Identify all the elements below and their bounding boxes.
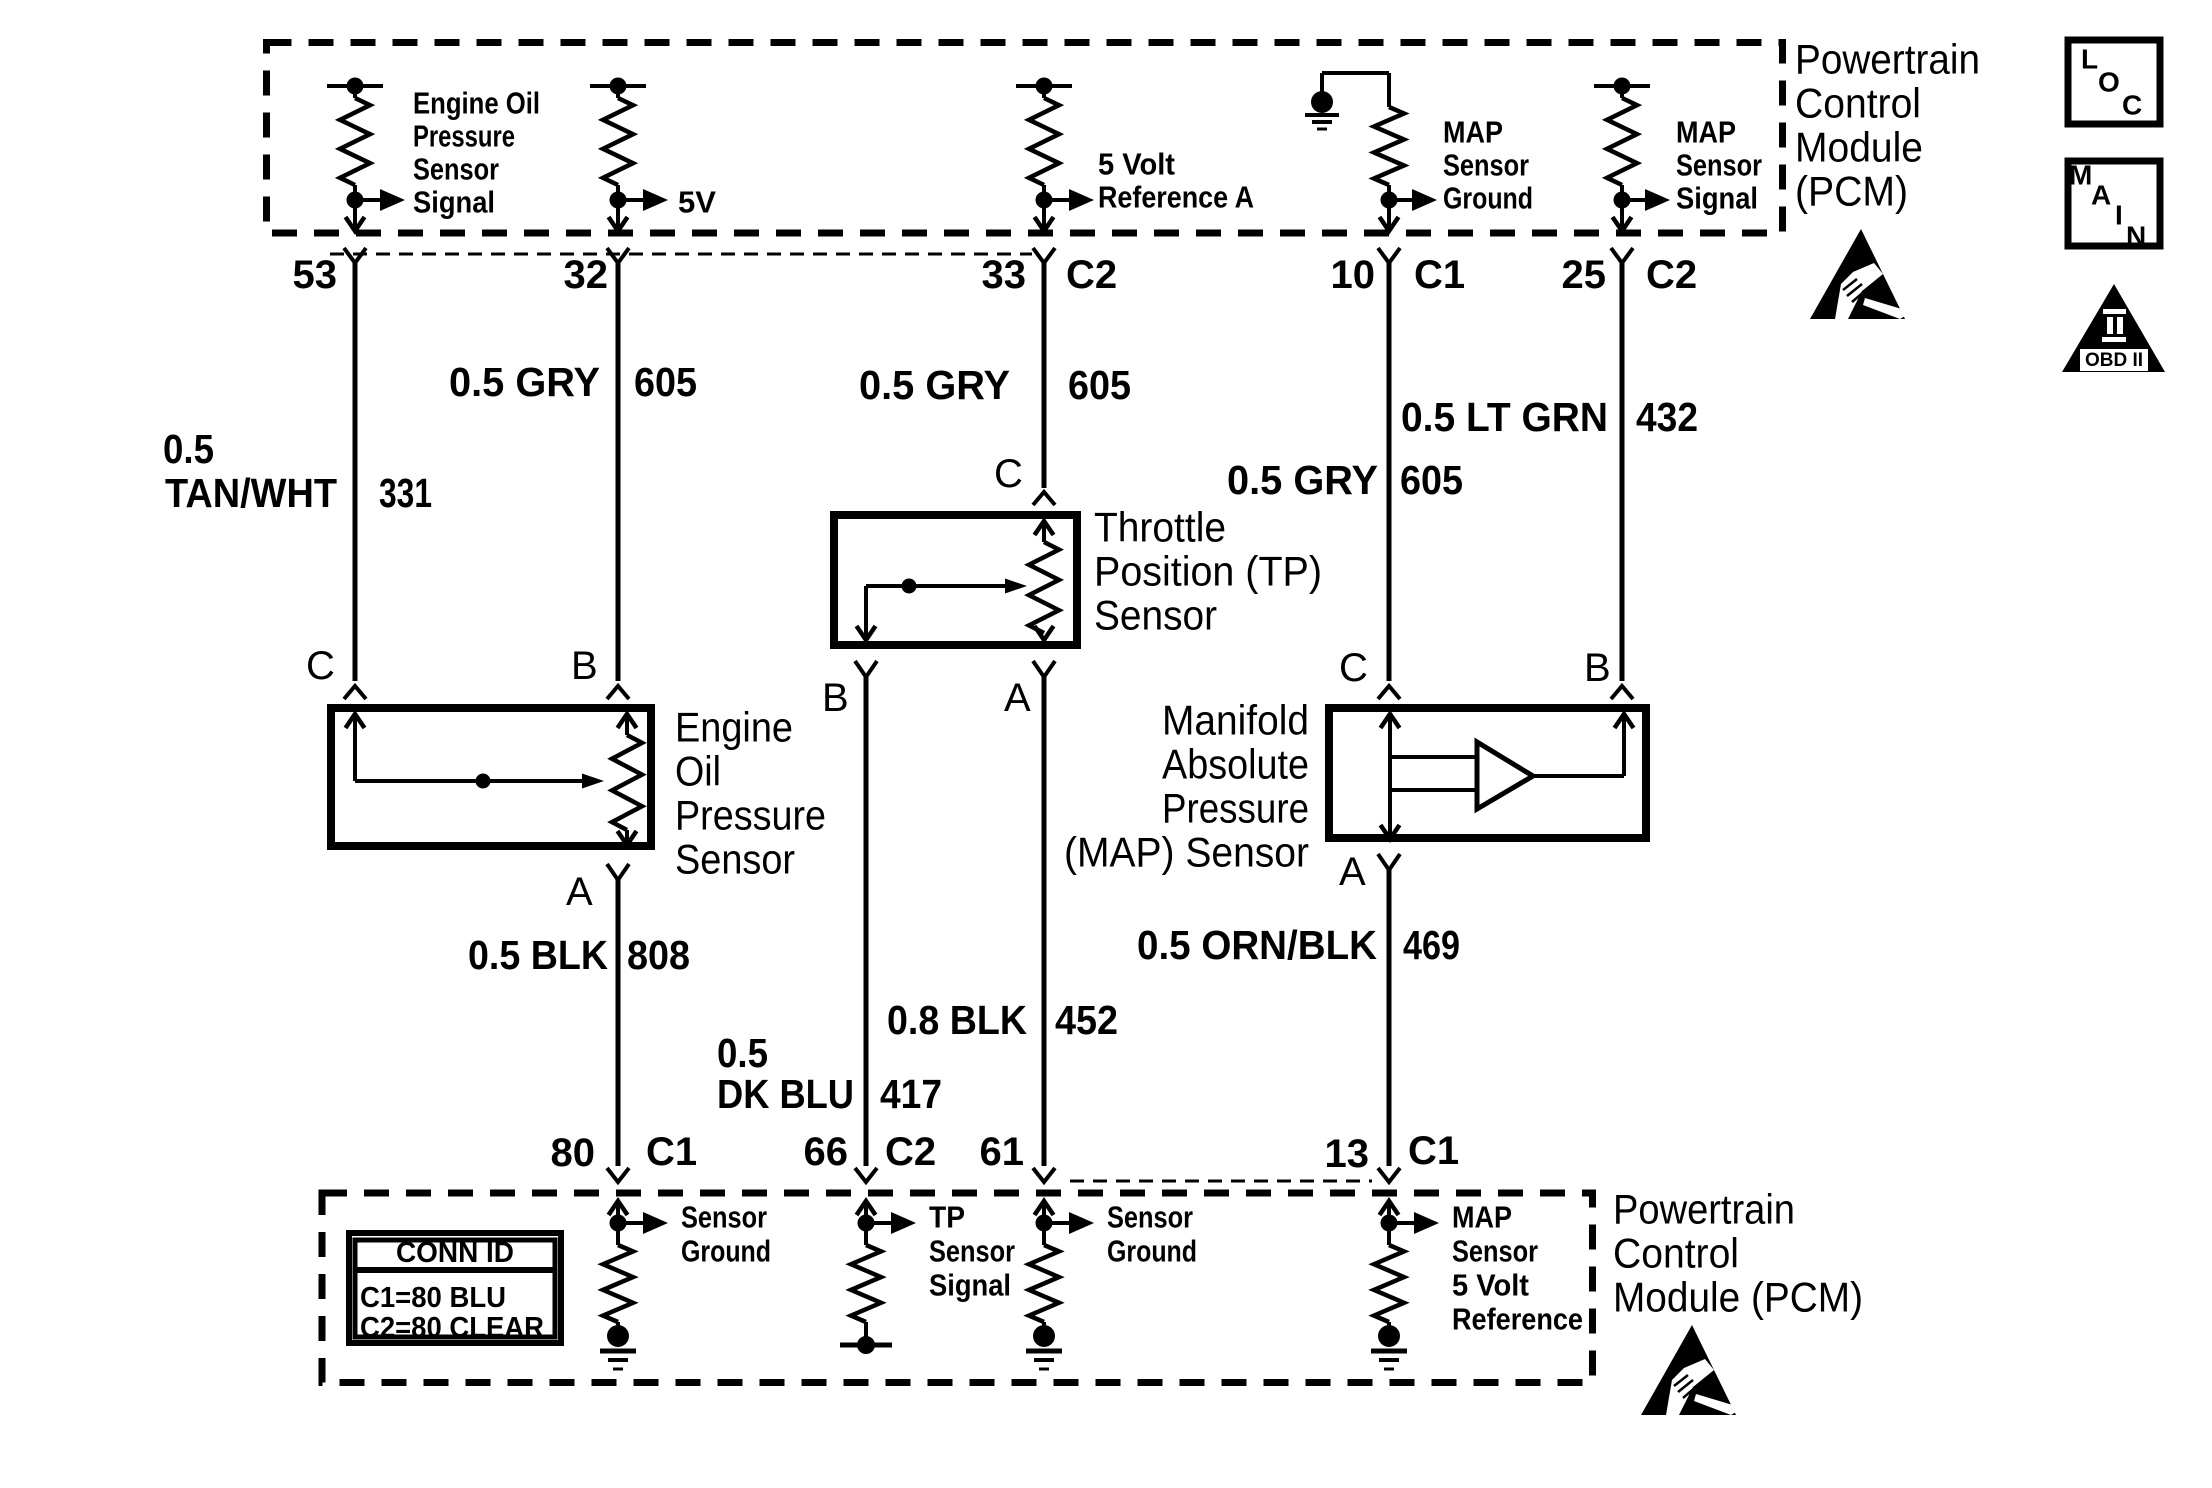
svg-text:C1: C1: [1414, 253, 1465, 297]
arrow: EOP wiper: [582, 774, 604, 789]
svg-text:0.5: 0.5: [717, 1030, 768, 1076]
svg-text:808: 808: [627, 932, 690, 978]
svg-text:M: M: [2069, 159, 2092, 190]
svg-text:Signal: Signal: [929, 1268, 1011, 1303]
wire: pin entry arrow: [1380, 1201, 1399, 1223]
op-amp: MAP amplifier: [1477, 742, 1533, 809]
connector pin 32: [607, 248, 629, 263]
wire: circuit 432 (pin 25 to MAP sensor B): [1620, 263, 1625, 681]
connector: MAP sensor pin C: [1378, 686, 1400, 699]
resistor: PCM MAP sensor ground resistor: [1374, 73, 1404, 200]
label: pin 80: [551, 1131, 596, 1175]
svg-text:B: B: [1584, 646, 1611, 690]
svg-text:Manifold: Manifold: [1162, 697, 1309, 744]
svg-text:O: O: [2098, 66, 2120, 97]
label: connector C1 (pin 13): [1408, 1129, 1459, 1173]
svg-text:MAP: MAP: [1443, 115, 1503, 150]
throttle position sensor box: [834, 515, 1077, 645]
wire: pin 33 exit arrow: [1035, 200, 1054, 231]
svg-text:80: 80: [551, 1131, 596, 1175]
svg-text:61: 61: [980, 1130, 1025, 1174]
label: pin 66: [804, 1130, 849, 1174]
resistor: EOP potentiometer: [612, 714, 642, 845]
svg-text:Ground: Ground: [681, 1234, 771, 1269]
svg-text:C: C: [2122, 89, 2142, 120]
signal arrow: MAP Sensor Ground: [1389, 189, 1437, 211]
ESD warning symbol (top): [1810, 229, 1905, 319]
svg-text:OBD II: OBD II: [2085, 350, 2143, 371]
node: junction pin 33: [1036, 192, 1053, 209]
label: circuit 417: [880, 1071, 942, 1117]
label: EOP pin B: [571, 644, 598, 688]
label: circuit 452: [1055, 997, 1118, 1043]
wire: pin 32 exit arrow: [609, 200, 628, 231]
svg-text:Reference: Reference: [1452, 1302, 1583, 1337]
svg-text:32: 32: [564, 253, 609, 297]
label: pin 53: [293, 253, 338, 297]
LOC inset symbol: [2068, 40, 2160, 124]
svg-text:MAP: MAP: [1676, 115, 1736, 150]
connector pin 10: [1378, 248, 1400, 263]
engine oil pressure sensor box: [331, 708, 651, 846]
connector: EOP sensor pin B: [607, 686, 629, 699]
svg-text:TP: TP: [929, 1200, 965, 1235]
label: MAP Sensor 5 Volt Reference: [1452, 1200, 1583, 1337]
connector: TP sensor pin B: [855, 661, 877, 677]
label: MAP pin A: [1339, 850, 1366, 894]
svg-text:Sensor: Sensor: [929, 1234, 1015, 1269]
svg-text:C2: C2: [1646, 253, 1697, 297]
svg-text:MAP: MAP: [1452, 1200, 1512, 1235]
label: Sensor Ground: [1107, 1200, 1197, 1269]
svg-text:469: 469: [1403, 922, 1460, 968]
svg-text:0.5 GRY: 0.5 GRY: [859, 362, 1010, 408]
svg-text:0.5 BLK: 0.5 BLK: [468, 932, 608, 978]
connector: EOP sensor pin A: [607, 864, 629, 880]
svg-text:605: 605: [634, 359, 697, 405]
signal arrow: [1044, 1212, 1094, 1234]
wire: pin 53 exit arrow: [346, 200, 365, 231]
svg-text:Ground: Ground: [1107, 1234, 1197, 1269]
node: junction: [610, 1215, 627, 1232]
svg-text:Powertrain: Powertrain: [1795, 36, 1980, 83]
resistor: PCM pull-up (5 volt reference A): [1029, 86, 1059, 200]
svg-text:331: 331: [379, 470, 432, 516]
svg-text:Module (PCM): Module (PCM): [1613, 1274, 1863, 1321]
svg-text:Sensor: Sensor: [1676, 148, 1762, 183]
label: 0.5 ORN/BLK: [1137, 922, 1377, 968]
svg-text:L: L: [2081, 43, 2098, 74]
label: circuit 432: [1636, 394, 1698, 440]
resistor: PCM internal: [1029, 1223, 1059, 1322]
PCM bottom title: Powertrain Control Module (PCM): [1613, 1186, 1863, 1321]
svg-text:A: A: [1339, 850, 1366, 894]
label: 0.5 GRY (pin 10): [1227, 457, 1378, 503]
svg-text:C1: C1: [646, 1130, 697, 1174]
svg-text:C2: C2: [885, 1130, 936, 1174]
label: circuit 469: [1403, 922, 1460, 968]
signal arrow: 5V: [618, 189, 668, 211]
label: TP pin A: [1004, 676, 1031, 720]
svg-text:432: 432: [1636, 394, 1698, 440]
connector: MAP sensor pin B: [1611, 686, 1633, 699]
node: MAP sensor signal supply bar: [1594, 78, 1650, 95]
OBD II symbol: [2062, 284, 2165, 372]
connector: TP sensor pin C: [1033, 492, 1055, 505]
svg-text:Reference A: Reference A: [1098, 180, 1254, 215]
svg-text:66: 66: [804, 1130, 849, 1174]
signal arrow: [866, 1212, 916, 1234]
svg-text:0.8 BLK: 0.8 BLK: [887, 997, 1027, 1043]
svg-text:Pressure: Pressure: [675, 792, 826, 839]
svg-text:A: A: [2091, 179, 2111, 210]
label: EOP pin C: [306, 644, 335, 688]
svg-text:0.5 ORN/BLK: 0.5 ORN/BLK: [1137, 922, 1377, 968]
svg-text:C1=80 BLU: C1=80 BLU: [360, 1282, 506, 1314]
svg-text:Signal: Signal: [1676, 181, 1758, 216]
svg-text:Powertrain: Powertrain: [1613, 1186, 1795, 1233]
label: pin 10: [1331, 253, 1376, 297]
svg-text:13: 13: [1325, 1132, 1370, 1176]
svg-text:C: C: [306, 644, 335, 688]
resistor: TP potentiometer: [1029, 521, 1059, 640]
label: connector C1: [1414, 253, 1465, 297]
label: pin 32: [564, 253, 609, 297]
node: TP signal rail: [840, 1322, 892, 1354]
svg-text:Sensor: Sensor: [681, 1200, 767, 1235]
svg-text:0.5 GRY: 0.5 GRY: [449, 359, 600, 405]
svg-text:Oil: Oil: [675, 748, 721, 795]
label: circuit 605 (pin 33): [1068, 362, 1131, 408]
wire: circuit 605 (pin 33 to TP sensor C): [1042, 263, 1047, 488]
wire: pin 25 exit arrow: [1613, 200, 1632, 231]
svg-text:53: 53: [293, 253, 338, 297]
label: Engine Oil Pressure Sensor Signal: [413, 86, 540, 220]
svg-text:N: N: [2126, 220, 2146, 251]
resistor: PCM internal: [851, 1223, 881, 1322]
label: 0.5 GRY (pin 32): [449, 359, 600, 405]
wire: circuit 808 (EOP A to pin 80): [616, 880, 621, 1166]
svg-text:0.5: 0.5: [163, 426, 214, 472]
svg-text:Control: Control: [1795, 80, 1921, 127]
ground: PCM internal ground (MAP sensor ground): [1305, 73, 1389, 129]
svg-text:605: 605: [1400, 457, 1463, 503]
svg-text:C: C: [1339, 646, 1368, 690]
connector pin 13: [1378, 1168, 1400, 1182]
label: pin 25: [1562, 253, 1607, 297]
svg-text:605: 605: [1068, 362, 1131, 408]
connector pin 53: [344, 248, 366, 263]
resistor: PCM internal: [1374, 1223, 1404, 1322]
svg-text:5 Volt: 5 Volt: [1452, 1268, 1529, 1303]
label: 0.5 LT GRN: [1401, 394, 1608, 440]
PCM top title: Powertrain Control Module (PCM): [1795, 36, 1980, 215]
svg-text:Ground: Ground: [1443, 181, 1533, 216]
node: junction pin 10: [1381, 192, 1398, 209]
label: 5 Volt Reference A: [1098, 147, 1254, 215]
node: junction pin 53: [347, 192, 364, 209]
resistor: PCM pull-up (MAP sensor signal): [1607, 86, 1637, 200]
label: connector C2 (pin 25): [1646, 253, 1697, 297]
wire: pin 10 exit arrow: [1380, 200, 1399, 231]
connector pin 80: [607, 1168, 629, 1182]
svg-text:B: B: [571, 644, 598, 688]
svg-text:Absolute: Absolute: [1162, 741, 1309, 788]
label: connector C1 (pin 80): [646, 1130, 697, 1174]
wire: circuit 605 (pin 32 to EOP sensor B): [616, 263, 621, 681]
connector: EOP sensor pin C: [344, 686, 366, 699]
svg-text:Pressure: Pressure: [413, 119, 515, 154]
connector C1 dashed line (bottom): [1070, 1180, 1372, 1183]
node: junction pin 25: [1614, 192, 1631, 209]
node: junction: [1381, 1215, 1398, 1232]
MAIN inset symbol: [2068, 159, 2160, 251]
svg-text:Engine Oil: Engine Oil: [413, 86, 540, 121]
label: connector C2 (pin 66): [885, 1130, 936, 1174]
svg-text:C2: C2: [1066, 253, 1117, 297]
connector pin 33: [1033, 248, 1055, 263]
wire: MAP input leg: [1381, 714, 1478, 839]
svg-text:Control: Control: [1613, 1230, 1739, 1277]
label: MAP Sensor Ground: [1443, 115, 1533, 216]
wire: MAP output leg: [1533, 714, 1634, 776]
resistor: PCM pull-up (5V): [603, 86, 633, 200]
wire: circuit 469 (MAP A to pin 13): [1387, 870, 1392, 1166]
label: pin 33: [982, 253, 1027, 297]
signal arrow: MAP Sensor Signal: [1622, 189, 1670, 211]
label: EOP pin A: [566, 870, 593, 914]
label: 5V: [678, 185, 716, 220]
node: 5 volt reference supply bar: [1016, 78, 1072, 95]
label: 0.5 TAN/WHT: [163, 426, 337, 516]
label: TP pin C: [994, 452, 1023, 496]
svg-text:10: 10: [1331, 253, 1376, 297]
svg-text:C: C: [994, 452, 1023, 496]
svg-text:Sensor: Sensor: [1107, 1200, 1193, 1235]
PCM bottom dashed box: [322, 1193, 1593, 1383]
svg-text:C1: C1: [1408, 1129, 1459, 1173]
label: MAP pin C: [1339, 646, 1368, 690]
svg-text:Module: Module: [1795, 124, 1923, 171]
label: TP pin B: [822, 676, 849, 720]
connector: TP sensor pin A: [1033, 661, 1055, 677]
connector pin 61: [1033, 1168, 1055, 1182]
label: 0.5 GRY (pin 33): [859, 362, 1010, 408]
label: 0.8 BLK: [887, 997, 1027, 1043]
svg-text:(MAP) Sensor: (MAP) Sensor: [1064, 829, 1309, 876]
label: MAP pin B: [1584, 646, 1611, 690]
node: junction: [1036, 1215, 1053, 1232]
ground: PCM internal ground: [1026, 1322, 1062, 1369]
svg-text:Sensor: Sensor: [1452, 1234, 1538, 1269]
ground: PCM internal ground: [600, 1322, 636, 1369]
svg-text:B: B: [822, 676, 849, 720]
label: Throttle Position (TP) Sensor: [1094, 504, 1322, 639]
svg-text:33: 33: [982, 253, 1027, 297]
svg-text:A: A: [566, 870, 593, 914]
connector pin 66: [855, 1168, 877, 1182]
wire: circuit 331 (pin 53 to EOP sensor C): [353, 263, 358, 681]
resistor: PCM pull-up (engine oil pressure sensor signal): [340, 86, 370, 200]
svg-text:I: I: [2115, 199, 2123, 230]
connector: MAP sensor pin A: [1378, 854, 1400, 870]
svg-text:Engine: Engine: [675, 704, 793, 751]
svg-text:452: 452: [1055, 997, 1118, 1043]
svg-text:25: 25: [1562, 253, 1607, 297]
label: circuit 331: [379, 470, 432, 516]
ground: PCM internal ground: [1371, 1322, 1407, 1369]
svg-text:Pressure: Pressure: [1162, 785, 1309, 832]
wire: EOP wiper feed: [346, 714, 585, 781]
node: TP wiper dot: [902, 579, 917, 594]
svg-text:Throttle: Throttle: [1094, 504, 1226, 551]
connector C2 dashed line (top): [330, 253, 1032, 256]
label: TP Sensor Signal: [929, 1200, 1015, 1303]
resistor: PCM internal: [603, 1223, 633, 1322]
svg-text:0.5 LT GRN: 0.5 LT GRN: [1401, 394, 1608, 440]
label: circuit 605 (pin 10): [1400, 457, 1463, 503]
svg-text:A: A: [1004, 676, 1031, 720]
manifold absolute pressure sensor box: [1329, 708, 1646, 838]
svg-text:Sensor: Sensor: [413, 152, 499, 187]
signal arrow: [618, 1212, 668, 1234]
label: MAP Sensor Signal: [1676, 115, 1762, 216]
svg-text:Position (TP): Position (TP): [1094, 548, 1322, 595]
connector pin 25: [1611, 248, 1633, 263]
node: engine oil pressure sensor signal supply bar: [327, 78, 383, 95]
label: circuit 808: [627, 932, 690, 978]
svg-text:(PCM): (PCM): [1795, 168, 1908, 215]
svg-text:5V: 5V: [678, 185, 716, 220]
svg-text:CONN ID: CONN ID: [396, 1237, 514, 1269]
node: 5V supply bar: [590, 78, 646, 95]
svg-text:Sensor: Sensor: [1094, 592, 1217, 639]
label: Manifold Absolute Pressure (MAP) Sensor: [1064, 697, 1309, 876]
svg-text:5 Volt: 5 Volt: [1098, 147, 1175, 182]
node: junction: [858, 1215, 875, 1232]
PCM top dashed box: [267, 43, 1783, 234]
svg-text:DK BLU: DK BLU: [717, 1071, 854, 1117]
svg-text:Signal: Signal: [413, 185, 495, 220]
wire: pin entry arrow: [857, 1201, 876, 1223]
signal arrow: Engine Oil Pressure Sensor Signal: [355, 189, 405, 211]
label: circuit 605 (pin 32): [634, 359, 697, 405]
label: pin 13: [1325, 1132, 1370, 1176]
signal arrow: [1389, 1212, 1439, 1234]
wire: circuit 605 (pin 10 to MAP sensor C): [1387, 263, 1392, 681]
label: 0.5 BLK: [468, 932, 608, 978]
node: junction pin 32: [610, 192, 627, 209]
label: connector C2: [1066, 253, 1117, 297]
svg-text:Sensor: Sensor: [1443, 148, 1529, 183]
wire: TP wiper: [857, 579, 1028, 641]
label: Engine Oil Pressure Sensor: [675, 704, 826, 883]
svg-text:TAN/WHT: TAN/WHT: [165, 470, 337, 516]
svg-text:C2=80 CLEAR: C2=80 CLEAR: [360, 1312, 544, 1344]
svg-text:Sensor: Sensor: [675, 836, 795, 883]
node: EOP wiper dot: [476, 774, 491, 789]
svg-text:417: 417: [880, 1071, 942, 1117]
svg-text:0.5 GRY: 0.5 GRY: [1227, 457, 1378, 503]
label: Sensor Ground: [681, 1200, 771, 1269]
wire: pin entry arrow: [609, 1201, 628, 1223]
CONN ID table: [349, 1233, 561, 1344]
label: 0.5 DK BLU: [717, 1030, 854, 1117]
ESD warning symbol (bottom): [1641, 1325, 1736, 1415]
label: pin 61: [980, 1130, 1025, 1174]
wire: circuit 417 (TP B to pin 66): [864, 677, 869, 1166]
wire: pin entry arrow: [1035, 1201, 1054, 1223]
signal arrow: 5 Volt Reference A: [1044, 189, 1094, 211]
wire: circuit 452 (TP A to pin 61): [1042, 677, 1047, 1166]
